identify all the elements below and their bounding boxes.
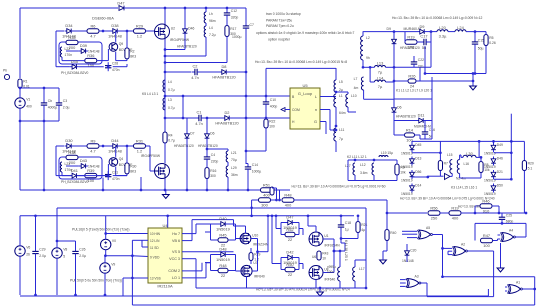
wire d11b — [426, 120, 433, 122]
label U11v — [141, 154, 161, 158]
svg-text:R40: R40 — [390, 231, 396, 235]
wire l13b — [386, 66, 395, 68]
svg-text:C26: C26 — [79, 248, 85, 252]
svg-text:D11: D11 — [418, 113, 425, 118]
node n96b — [265, 95, 268, 98]
diode mcD56 — [410, 170, 422, 179]
wire l17b — [355, 281, 366, 288]
svg-text:VCC 3: VCC 3 — [169, 257, 180, 261]
svg-text:G: G — [314, 119, 317, 124]
svg-text:50µ: 50µ — [478, 47, 484, 51]
wire rd4o — [299, 264, 303, 270]
svg-text:HFA08TB120: HFA08TB120 — [396, 115, 416, 119]
label D9ref — [387, 27, 392, 31]
wire r3a — [396, 160, 398, 164]
wire u4 top drop — [167, 216, 169, 228]
wire v431 — [430, 32, 432, 68]
node na1 — [533, 288, 536, 291]
wire rd1o — [236, 232, 241, 239]
wire tw3 — [460, 174, 466, 179]
wire r29a — [250, 248, 252, 253]
inductor L11 — [334, 128, 345, 141]
node ngtr — [472, 72, 475, 75]
svg-text:C2: C2 — [193, 63, 198, 68]
svg-text:R9: R9 — [91, 139, 96, 144]
svg-text:V6: V6 — [26, 246, 30, 250]
node n118b — [206, 117, 209, 120]
inductor L7 — [354, 77, 364, 90]
svg-text:0.7µ: 0.7µ — [168, 106, 175, 110]
svg-text:R22: R22 — [269, 120, 275, 124]
wire lsw11 — [116, 167, 127, 176]
svg-text:PUL 50(0 5 0u 50n 50n {Ton} {T: PUL 50(0 5 0u 50n 50n {Ton} {Tns}) — [70, 279, 122, 283]
wire r16b — [206, 179, 208, 191]
svg-text:Hc=13. Bs=.39: Hc=13. Bs=.39 — [458, 205, 480, 209]
svg-text:1N5019: 1N5019 — [216, 227, 230, 232]
label k2 — [347, 155, 367, 159]
wire rail735 — [425, 73, 486, 75]
label hsz2 — [61, 71, 89, 75]
group box ls — [59, 157, 102, 179]
svg-text:1N4148: 1N4148 — [108, 34, 122, 39]
svg-text:D14: D14 — [415, 184, 421, 188]
svg-text:36m: 36m — [231, 173, 238, 177]
svg-text:2.0µ: 2.0µ — [39, 254, 46, 258]
wire c10b — [265, 108, 267, 119]
group box hs — [59, 42, 102, 64]
svg-text:2.0µ: 2.0µ — [79, 254, 86, 258]
resistor R4 — [163, 132, 175, 143]
wire ch2 in1 — [276, 216, 281, 229]
label lsz2 — [61, 180, 89, 184]
wire rd2i — [205, 262, 211, 264]
pin lin — [150, 239, 160, 243]
wire u10 o — [251, 239, 258, 272]
resistor R46b — [480, 199, 492, 214]
resistor R47 — [481, 233, 493, 248]
node n118z — [164, 117, 167, 120]
label k12 — [392, 16, 482, 20]
wire ladder drop — [43, 121, 45, 190]
svg-text:PUL16(0 5 {Tzw0} 50n 50n {Tzr}: PUL16(0 5 {Tzw0} 50n 50n {Tzr} {Tzw}) — [72, 228, 129, 232]
wire v9b — [104, 273, 106, 295]
wire v4404 — [439, 141, 441, 160]
diode rd3D — [283, 215, 297, 230]
wire vss w — [123, 278, 148, 296]
svg-text:R43: R43 — [322, 252, 328, 256]
resistor rd1R — [218, 233, 228, 248]
diode D10 — [392, 37, 397, 46]
wire c15a — [474, 32, 476, 39]
node nvss — [131, 277, 134, 280]
label U5t — [298, 91, 313, 96]
wire l1l10a — [336, 92, 348, 94]
label mcvD14 — [401, 192, 413, 196]
label D6mv — [198, 144, 218, 148]
wire l13a — [363, 66, 375, 68]
wire u5L — [320, 96, 336, 98]
node n96a — [245, 95, 248, 98]
resistor hsRd — [85, 53, 97, 68]
wire ch2 out — [334, 243, 345, 251]
svg-text:C17: C17 — [420, 33, 427, 38]
svg-text:4.7: 4.7 — [90, 33, 95, 38]
wire lslv — [55, 146, 57, 176]
wire l29b — [227, 177, 229, 190]
node n42573 — [424, 72, 427, 75]
wire hsw3 — [120, 30, 134, 32]
wire r7b — [439, 171, 441, 177]
inductor L4 — [163, 80, 175, 92]
wire l20b — [448, 31, 455, 33]
node nv9b — [104, 294, 107, 297]
diode D20 — [405, 249, 417, 258]
capacitor C22 — [411, 58, 424, 68]
svg-text:A1: A1 — [516, 281, 520, 285]
svg-text:V1: V1 — [26, 98, 30, 102]
label hsz1 — [88, 50, 100, 54]
wire rail305 — [132, 304, 534, 306]
wire rd2lo — [211, 255, 218, 271]
label pul2 — [70, 279, 122, 283]
svg-text:L16: L16 — [464, 162, 470, 166]
gate A3 — [406, 275, 421, 288]
pin vb — [172, 239, 180, 243]
wire a4 in2 — [498, 238, 501, 240]
svg-text:L4: L4 — [168, 80, 172, 84]
wire lhc — [165, 37, 206, 56]
wire lsw12 — [126, 146, 128, 163]
node n2512 — [250, 206, 253, 209]
inductor L27 — [353, 163, 355, 175]
diode D6 — [392, 106, 402, 115]
wire vb v — [233, 220, 235, 226]
svg-text:HFA08TB120: HFA08TB120 — [215, 121, 239, 126]
svg-text:1µ: 1µ — [345, 227, 349, 231]
wire r22a — [265, 118, 267, 119]
IC U4 — [148, 223, 182, 288]
svg-text:1N4148: 1N4148 — [402, 259, 414, 263]
svg-text:D45: D45 — [415, 143, 421, 147]
wire r20b — [523, 171, 525, 214]
wire v425 — [424, 46, 426, 74]
node rk1 — [478, 140, 481, 143]
wire l14a — [370, 81, 374, 83]
capacitor C14 — [245, 163, 261, 173]
wire v6b — [19, 256, 21, 295]
wire l21 link — [207, 148, 228, 150]
svg-text:Q9: Q9 — [119, 42, 124, 46]
svg-text:4µ: 4µ — [361, 228, 365, 232]
wire r4b — [164, 143, 166, 163]
pin com — [168, 269, 180, 273]
inductor L1 — [334, 94, 343, 107]
wire l5a — [335, 68, 337, 80]
label rcvD49 — [484, 152, 496, 156]
wire rail296 — [20, 295, 488, 297]
svg-text:R39: R39 — [87, 168, 94, 173]
diode hsDa — [62, 23, 76, 38]
svg-text:n: n — [315, 107, 317, 112]
svg-text:A3: A3 — [415, 275, 419, 279]
wire l21b — [227, 162, 229, 166]
wire a5 out — [432, 235, 443, 277]
buffer A7 — [445, 174, 451, 180]
wire hsw15 — [113, 64, 127, 67]
resistor R43 — [317, 251, 329, 261]
wire c26a — [75, 241, 77, 248]
wire igbt2 bot — [164, 179, 166, 191]
wire hsw1 — [74, 30, 88, 32]
diode lsDb — [108, 138, 122, 153]
wire rd1lo — [211, 224, 218, 240]
svg-text:D56: D56 — [415, 170, 421, 174]
svg-text:D9: D9 — [387, 27, 392, 31]
svg-text:13 VSS: 13 VSS — [150, 277, 161, 281]
resistor rd3R — [285, 227, 295, 242]
svg-text:R6: R6 — [91, 24, 96, 29]
inductor L12 — [360, 163, 374, 175]
inductor L29 — [226, 166, 238, 177]
label u3v — [325, 244, 341, 248]
pin L — [315, 94, 318, 99]
resistor lsRe — [125, 163, 137, 174]
svg-text:0.26: 0.26 — [489, 41, 496, 45]
diode D47 — [92, 1, 124, 21]
wire l14b — [386, 81, 395, 83]
wire lsw13 — [56, 175, 70, 177]
svg-text:L10: L10 — [351, 94, 357, 98]
svg-text:L13: L13 — [377, 61, 384, 66]
resistor R26 — [408, 74, 416, 89]
svg-text:PARAM Tpm=0.2u: PARAM Tpm=0.2u — [266, 24, 294, 28]
wire c18a — [340, 216, 342, 222]
svg-text:R45: R45 — [219, 233, 226, 238]
svg-text:1000µ: 1000µ — [252, 169, 261, 173]
wire l18a — [339, 251, 341, 267]
gate A4 — [501, 229, 516, 242]
wire r29b — [250, 261, 252, 265]
wire rail213 — [387, 212, 427, 214]
wire u7 bot — [246, 277, 248, 288]
svg-text:R2: R2 — [130, 49, 134, 53]
resistor R48 — [282, 193, 294, 208]
node nl1 — [335, 125, 338, 128]
wire r5b — [485, 46, 487, 74]
svg-text:1N5019: 1N5019 — [401, 165, 413, 169]
label K5 — [142, 92, 158, 96]
svg-text:HFA08TB120: HFA08TB120 — [198, 144, 218, 148]
wire rd2ro2 — [229, 255, 236, 271]
resistor R17 — [225, 26, 237, 37]
node n2158a — [166, 214, 169, 217]
wire rch1 — [440, 212, 449, 214]
svg-text:R38: R38 — [68, 150, 75, 155]
svg-text:L23: L23 — [65, 162, 71, 166]
wire r26a — [394, 80, 408, 82]
svg-text:R46: R46 — [482, 199, 489, 204]
node n47573 — [474, 72, 477, 75]
wire rd2ro — [228, 254, 236, 256]
wire c7 corner — [245, 8, 247, 23]
svg-text:D9: D9 — [420, 24, 425, 29]
svg-text:R31: R31 — [136, 139, 143, 144]
svg-text:R56: R56 — [430, 206, 437, 211]
svg-text:L15: L15 — [447, 153, 453, 157]
resistor R22 — [264, 119, 276, 129]
wire c14a — [245, 151, 247, 164]
svg-text:320p: 320p — [231, 15, 239, 19]
svg-text:100: 100 — [88, 178, 95, 183]
node lsnq — [126, 145, 129, 148]
svg-text:C7: C7 — [250, 23, 254, 27]
svg-text:L12: L12 — [360, 163, 366, 167]
wire r8b — [466, 173, 481, 179]
resistor R51 — [261, 183, 273, 198]
label rcvD50 — [484, 192, 496, 196]
capacitor C7 — [232, 23, 254, 40]
wire igbt1 bot — [164, 39, 166, 163]
inductor Lh — [204, 12, 216, 23]
svg-text:COM 2: COM 2 — [168, 269, 180, 273]
IC U5 — [290, 83, 320, 129]
svg-text:L22: L22 — [65, 47, 71, 51]
wire hslv — [55, 31, 57, 67]
node n118c — [245, 117, 248, 120]
transistor U8 — [309, 266, 329, 280]
wire c18b — [341, 231, 345, 244]
inductor L5 — [334, 80, 343, 92]
resistor lsRd — [85, 168, 97, 183]
svg-text:100: 100 — [408, 44, 415, 49]
wire c12b — [226, 19, 228, 26]
wire rail2234 — [475, 222, 526, 224]
svg-text:22: 22 — [221, 273, 225, 278]
wire lin w — [132, 240, 148, 305]
label d20v — [402, 259, 414, 263]
node nl17 — [365, 287, 368, 290]
label rcvD46 — [484, 165, 496, 169]
svg-text:170n: 170n — [65, 53, 73, 57]
inductor L19 — [379, 156, 388, 158]
node nl4 — [164, 95, 167, 98]
wire c4b — [206, 163, 208, 168]
node n118a — [182, 117, 185, 120]
wire a1 in1 — [505, 286, 507, 288]
wire lsw15 — [113, 175, 127, 177]
node n151 — [245, 150, 248, 153]
wire a2 out — [467, 250, 494, 252]
wire a3 in1 — [400, 279, 406, 281]
wire l14v — [369, 67, 371, 82]
label D7v — [174, 144, 194, 148]
node n394b — [393, 66, 396, 69]
wire l7b — [364, 90, 394, 99]
wire mt top — [348, 159, 397, 161]
svg-text:K3 L14 L15 L16 1: K3 L14 L15 L16 1 — [451, 186, 477, 190]
label k3 — [451, 186, 477, 190]
wire l2a — [362, 32, 364, 36]
wire v9h — [105, 255, 132, 257]
svg-text:L21: L21 — [231, 151, 237, 155]
resistor hsRe — [125, 48, 136, 59]
svg-text:R1: R1 — [23, 80, 27, 84]
wire v183 — [182, 96, 184, 118]
wire y2767 — [443, 276, 535, 278]
svg-text:HFA08TB120: HFA08TB120 — [177, 45, 197, 49]
wire gnd stub2 — [165, 190, 167, 195]
wire r21a — [357, 216, 359, 222]
label l18a — [327, 265, 336, 269]
svg-text:96m: 96m — [209, 19, 216, 23]
pin B — [292, 95, 295, 99]
svg-text:IRF640: IRF640 — [254, 275, 265, 279]
transistor hsQ — [109, 42, 132, 52]
wire v420s — [419, 67, 421, 81]
node trc — [205, 7, 208, 10]
wire rd4l — [281, 257, 286, 259]
svg-text:9h: 9h — [366, 56, 370, 60]
svg-text:L5: L5 — [339, 80, 343, 84]
svg-text:5n: 5n — [422, 45, 426, 50]
wire v394 — [393, 32, 395, 99]
wire v8a — [56, 208, 58, 248]
wire lsqb — [97, 164, 109, 176]
label u8v — [325, 278, 336, 282]
node nout1b — [267, 214, 270, 217]
wire hsqb — [97, 49, 109, 61]
node mcn2 — [426, 176, 429, 179]
capacitor C2 — [191, 63, 200, 80]
svg-text:470n: 470n — [112, 177, 120, 181]
label L19 — [381, 151, 393, 155]
svg-text:COM: COM — [292, 108, 300, 112]
node ns3 — [164, 61, 167, 64]
wire l17a — [355, 260, 366, 267]
wire c16a — [424, 121, 426, 129]
svg-text:8K3: 8K3 — [130, 55, 136, 59]
capacitor C29 — [32, 248, 46, 258]
svg-text:R21: R21 — [361, 223, 367, 227]
resistor R7 — [438, 161, 448, 171]
inductor L14 — [375, 75, 386, 89]
wire rail118b — [205, 117, 223, 119]
svg-text:910: 910 — [483, 208, 490, 213]
wire lsw4 — [146, 146, 155, 171]
svg-text:L20: L20 — [439, 25, 446, 30]
wire mt bot — [348, 180, 397, 182]
node na5 — [441, 275, 444, 278]
wire rd1ro — [228, 223, 236, 225]
wire v512 — [510, 114, 512, 180]
node n118d — [265, 117, 268, 120]
wire V1 mid — [19, 88, 21, 98]
inductor L20 — [437, 25, 448, 39]
label l18b — [327, 270, 334, 274]
svg-text:L1: L1 — [339, 94, 343, 98]
wire d7b — [186, 141, 188, 191]
node mt1 — [354, 159, 357, 162]
label 4m2 — [456, 177, 466, 181]
svg-text:1000µ: 1000µ — [232, 35, 242, 39]
wire hsw12 — [126, 31, 128, 48]
node nr72 — [164, 71, 167, 74]
wire r8a — [480, 157, 482, 161]
wire l24b — [466, 31, 486, 33]
svg-text:C28: C28 — [112, 62, 118, 66]
wire r5a — [485, 32, 487, 35]
svg-text:PH_BZX084-B2V0: PH_BZX084-B2V0 — [61, 180, 89, 184]
